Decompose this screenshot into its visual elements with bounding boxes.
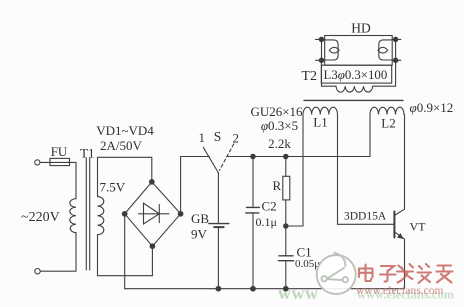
watermark red chinese title (359, 264, 453, 283)
svg-text:GU26×16: GU26×16 (250, 104, 303, 119)
svg-text:0.05μ: 0.05μ (295, 258, 320, 270)
wire bus to R (285, 157, 287, 177)
svg-text:2A/50V: 2A/50V (100, 138, 143, 153)
svg-text:L2: L2 (381, 116, 395, 131)
switch S dashed arm to contact 2 (220, 144, 234, 170)
svg-text:L3φ0.3×100: L3φ0.3×100 (324, 68, 388, 82)
wire bridge minus down to bottom bus (124, 214, 126, 289)
wire emitter to bottom bus (404, 239, 406, 289)
lamp pin stubs (316, 39, 401, 60)
lamp left filament (325, 40, 339, 60)
svg-text:S: S (214, 129, 222, 144)
bottom bus wire (125, 288, 405, 290)
node bridge left (122, 212, 127, 217)
svg-text:GB: GB (191, 211, 209, 226)
wire battery minus to bottom bus (217, 228, 219, 289)
svg-text:~220V: ~220V (21, 210, 60, 225)
transformer T2 core (304, 99, 403, 101)
svg-text:HD: HD (351, 21, 371, 36)
wire terminal to fuse (40, 161, 50, 163)
diode symbol inside bridge (139, 203, 170, 224)
node C1 on bus (284, 286, 289, 291)
wire secondary top to bridge top (98, 157, 152, 196)
wire L3 right lead to lamp right pins (373, 39, 396, 86)
svg-text:VT: VT (410, 220, 427, 234)
svg-text:9V: 9V (191, 227, 208, 242)
svg-text:2: 2 (233, 131, 240, 146)
node lamp pin bottom-left (319, 58, 323, 62)
node lamp pin top-left (319, 37, 323, 41)
svg-text:φ0.9×12: φ0.9×12 (410, 100, 454, 115)
wire C2 to bottom bus (252, 213, 254, 289)
svg-text:3DD15A: 3DD15A (344, 211, 387, 223)
wire R to node (285, 200, 287, 226)
node battery on bus (216, 286, 221, 291)
wire L2 right end to collector (404, 115, 406, 210)
wire L3 left lead to lamp left pins (322, 39, 337, 86)
node R bottom junction (284, 224, 288, 228)
svg-text:L1: L1 (313, 115, 327, 130)
watermark logo circle (317, 253, 356, 295)
wire bridge plus up to switch contact 1 (181, 157, 210, 214)
transistor VT emitter arrow (398, 234, 403, 239)
wire node to C1 (285, 226, 287, 255)
svg-text:2.2k: 2.2k (268, 136, 291, 151)
fuse FU (50, 158, 70, 165)
node bridge right (178, 212, 183, 217)
svg-text:φ0.3×5: φ0.3×5 (261, 118, 298, 133)
svg-text:T1: T1 (80, 146, 94, 161)
inductor L2 winding (370, 107, 404, 114)
node lamp pin bottom-right (393, 58, 397, 62)
switch S blade to contact 1 (203, 147, 218, 172)
inductor L3 winding (336, 86, 373, 92)
svg-text:www: www (278, 283, 319, 303)
wire fuse to primary top (70, 162, 77, 198)
wire switch common down to battery (217, 173, 219, 224)
svg-text:www.elecfans.com: www.elecfans.com (356, 285, 443, 297)
lamp HD tube (325, 36, 393, 66)
transformer T1 secondary winding (98, 197, 104, 235)
svg-text:R: R (273, 178, 282, 193)
node C2 on bus (251, 286, 256, 291)
wire C1 to bottom bus (285, 261, 287, 289)
node bridge top (150, 180, 155, 185)
svg-text:0.1μ: 0.1μ (256, 215, 277, 229)
node R top (284, 154, 288, 158)
transformer T1 primary winding (70, 199, 76, 233)
bridge rectifier VD1-VD4 diamond (125, 182, 181, 246)
svg-text:C2: C2 (262, 199, 277, 214)
wire primary bottom to terminal (41, 233, 77, 272)
svg-text:T2: T2 (302, 69, 318, 84)
wire bus to C2 (252, 157, 254, 207)
wire secondary bottom to bridge bottom (98, 235, 153, 276)
svg-text:7.5V: 7.5V (100, 180, 126, 195)
wire switch contact 2 to bus and L2 left (227, 115, 371, 157)
terminal bottom input (35, 269, 40, 274)
capacitor C2 (246, 207, 260, 213)
lamp right filament (378, 40, 392, 60)
node lamp pin top-right (393, 37, 397, 41)
battery GB plates (209, 224, 229, 228)
transistor VT emitter diagonal (394, 232, 404, 239)
resistor R (283, 176, 290, 200)
wire node to L1 left end (286, 115, 303, 227)
wire L1 right end to transistor base (338, 115, 395, 225)
svg-text:VD1~VD4: VD1~VD4 (96, 123, 154, 138)
transformer T1 core (86, 158, 89, 270)
L3 label box (321, 65, 391, 83)
node C2 top (251, 154, 255, 158)
svg-text:FU: FU (51, 144, 68, 159)
transistor VT collector diagonal (394, 209, 404, 215)
transistor VT base bar (393, 211, 395, 237)
capacitor C1 (278, 256, 293, 261)
terminal top input (35, 160, 40, 165)
svg-text:1: 1 (199, 130, 206, 145)
node bridge bottom (150, 244, 155, 249)
inductor L1 winding (303, 107, 338, 114)
